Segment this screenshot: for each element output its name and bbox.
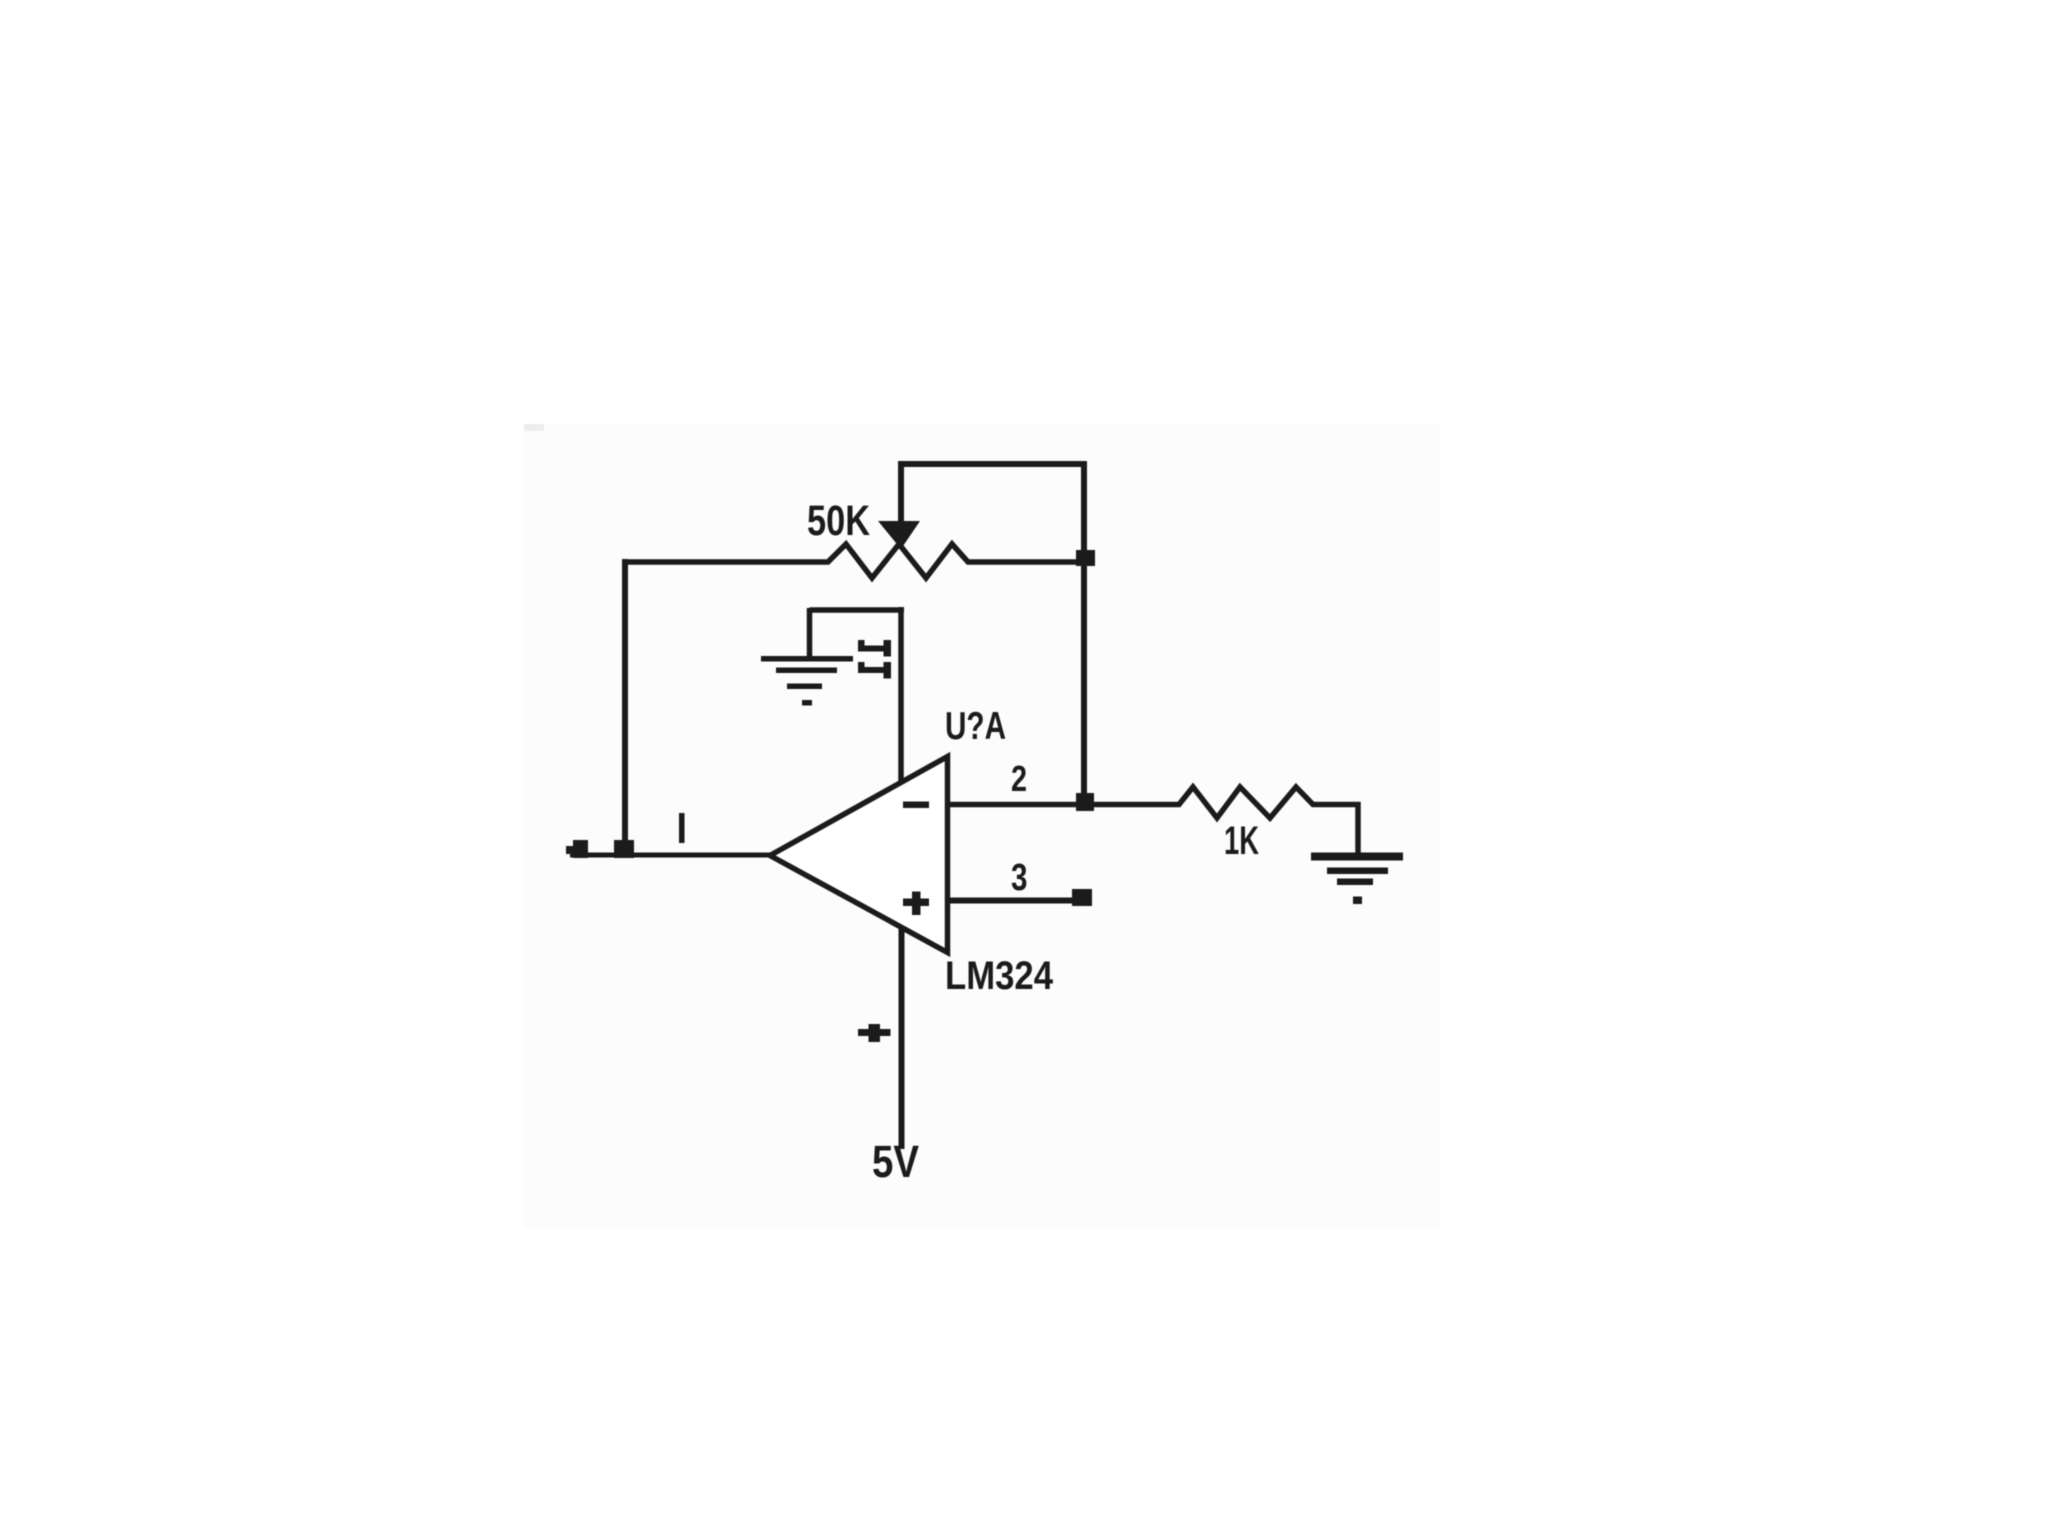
svg-text:5V: 5V — [872, 1136, 919, 1187]
svg-text:U?A: U?A — [945, 705, 1006, 748]
svg-text:LM324: LM324 — [945, 954, 1054, 998]
svg-text:1K: 1K — [1224, 819, 1259, 863]
svg-text:2: 2 — [1011, 758, 1027, 799]
svg-text:3: 3 — [1011, 857, 1028, 899]
svg-text:50K: 50K — [807, 497, 870, 545]
